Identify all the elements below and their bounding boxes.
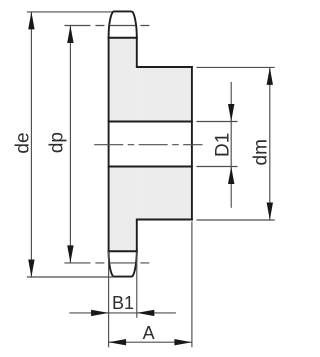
dimension line dp	[69, 26, 71, 263]
dp arrow up	[67, 26, 73, 44]
dp top extension line (pitch)	[64, 25, 151, 27]
svg-text:dp: dp	[47, 132, 68, 153]
de bottom extension line	[27, 276, 114, 278]
de top extension line	[27, 11, 112, 13]
plate right edge lower	[136, 220, 138, 253]
dm bottom extension line	[197, 219, 275, 221]
B1 arrow right (outside left)	[91, 310, 109, 316]
dm top extension line	[197, 66, 275, 68]
D1 arrow up (below)	[228, 167, 234, 185]
svg-text:A: A	[143, 323, 155, 343]
dp bottom extension line (pitch)	[64, 262, 151, 264]
B1 arrow left (outside right)	[137, 310, 155, 316]
D1 bottom extension line	[197, 166, 238, 168]
dimension line D1	[230, 82, 232, 208]
hub bottom edge	[136, 219, 193, 221]
dimension line dm	[269, 67, 271, 220]
dimension line de	[30, 12, 32, 277]
de arrow down	[28, 260, 34, 278]
svg-text:D1: D1	[212, 133, 233, 157]
A arrow right	[174, 339, 192, 345]
de arrow up	[28, 12, 34, 30]
centerline	[94, 144, 202, 146]
B1 left extension line	[108, 251, 110, 347]
dp arrow down	[67, 245, 73, 263]
plate right edge upper	[136, 37, 138, 67]
dimension line A	[109, 341, 192, 343]
B1 right extension line	[136, 251, 138, 318]
dm arrow down	[267, 203, 273, 221]
tooth root line top	[108, 37, 138, 39]
bottom tooth outline	[109, 250, 137, 276]
dm arrow up	[267, 67, 273, 85]
bore bottom edge	[108, 166, 193, 168]
bore top edge	[108, 121, 193, 123]
svg-text:de: de	[13, 132, 34, 153]
top tooth outline	[109, 11, 137, 37]
A arrow left	[109, 339, 127, 345]
hub right edge	[191, 66, 193, 220]
D1 arrow down (above)	[228, 104, 234, 122]
hub top edge	[136, 66, 193, 68]
svg-text:dm: dm	[250, 139, 271, 165]
hub fill	[137, 67, 192, 220]
plate left edge	[108, 37, 110, 252]
A right extension line	[191, 221, 193, 347]
sprocket plate fill	[109, 38, 137, 251]
plate bottom line	[108, 250, 138, 252]
svg-text:B1: B1	[112, 293, 134, 313]
D1 top extension line	[197, 121, 238, 123]
dimension line B1	[69, 312, 175, 314]
bore band (hole)	[109, 122, 192, 167]
